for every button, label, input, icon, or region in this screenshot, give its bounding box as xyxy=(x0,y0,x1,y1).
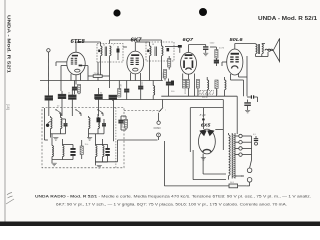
svg-text:25000: 25000 xyxy=(185,88,187,94)
svg-text:8 µF: 8 µF xyxy=(200,113,206,117)
svg-text:UNDA - Mod. R 52/1: UNDA - Mod. R 52/1 xyxy=(258,16,317,22)
svg-text:15 k: 15 k xyxy=(85,144,89,146)
svg-text:6Q7: 6Q7 xyxy=(183,37,194,43)
svg-text:[16]: [16] xyxy=(6,104,10,110)
svg-text:FONO: FONO xyxy=(154,126,161,130)
svg-text:s: s xyxy=(165,109,166,111)
svg-text:0,5 M: 0,5 M xyxy=(199,90,201,95)
svg-text:75 kΩ: 75 kΩ xyxy=(94,73,100,75)
svg-text:0,5 M: 0,5 M xyxy=(219,48,224,50)
svg-text:1 M: 1 M xyxy=(121,84,123,88)
svg-text:UNDA - Mod. R 52/1: UNDA - Mod. R 52/1 xyxy=(7,15,12,74)
svg-text:500 Ω: 500 Ω xyxy=(202,97,208,99)
svg-text:10000: 10000 xyxy=(217,89,219,95)
svg-text:6TE8: 6TE8 xyxy=(71,39,85,45)
svg-text:6K7: 6K7 xyxy=(131,38,142,44)
svg-text:44: 44 xyxy=(103,45,105,47)
svg-text:30 Ω: 30 Ω xyxy=(230,182,234,184)
svg-text:100000: 100000 xyxy=(122,120,124,128)
svg-text:6X5: 6X5 xyxy=(201,123,211,128)
svg-text:50L6: 50L6 xyxy=(230,37,243,43)
svg-text:38: 38 xyxy=(152,44,154,46)
svg-text:UNDA RADIO - Mod. R 52/1 - Med: UNDA RADIO - Mod. R 52/1 - Medie e corte… xyxy=(35,194,311,198)
svg-text:50000: 50000 xyxy=(163,72,165,78)
svg-text:6K7: 90 V pl., 17 V sch., — 1: 6K7: 90 V pl., 17 V sch., — 1 V griglia.… xyxy=(56,202,287,206)
svg-text:6,3: 6,3 xyxy=(253,134,256,136)
